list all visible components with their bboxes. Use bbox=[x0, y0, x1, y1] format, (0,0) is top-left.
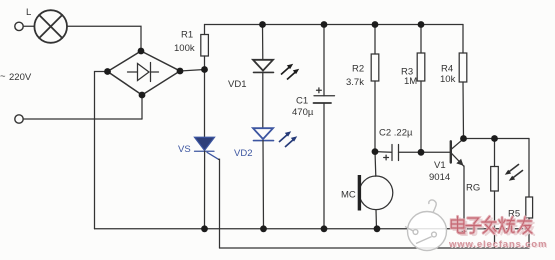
wire VD1 branch top bbox=[262, 25, 264, 60]
terminal T2 (220V neutral) bbox=[15, 115, 23, 123]
svg-text:R4: R4 bbox=[441, 64, 453, 75]
transistor V1 bbox=[450, 141, 452, 162]
svg-text:3.7k: 3.7k bbox=[346, 77, 364, 88]
svg-text:220V: 220V bbox=[9, 72, 32, 83]
svg-text:9014: 9014 bbox=[429, 172, 450, 183]
wire R4 top from rail corner bbox=[462, 25, 464, 54]
svg-text:R2: R2 bbox=[352, 64, 364, 75]
wire R5 bottom bbox=[528, 218, 530, 248]
wire VS cathode to rail bbox=[204, 151, 206, 229]
wire R1 top from rail bbox=[204, 25, 206, 35]
node rail R2 bbox=[372, 21, 379, 28]
wire R2 junction to C2 bbox=[375, 151, 392, 154]
node R1/VS bbox=[201, 66, 208, 73]
bottom rail 2 bbox=[220, 247, 530, 249]
svg-text:~: ~ bbox=[0, 71, 6, 82]
svg-text:1M: 1M bbox=[404, 76, 417, 87]
wire MC bottom bbox=[375, 210, 378, 229]
wire R3 bottom bbox=[420, 81, 422, 152]
light arrows into RG bbox=[508, 165, 519, 173]
top rail bbox=[205, 24, 464, 26]
bridge internal diode bbox=[128, 71, 138, 73]
svg-text:10k: 10k bbox=[440, 74, 456, 85]
svg-text:V1: V1 bbox=[434, 160, 446, 171]
wire R4 bottom bbox=[462, 82, 465, 139]
node RG top bbox=[491, 135, 498, 142]
wire to R5 bbox=[528, 139, 530, 198]
node bridge bottom bbox=[139, 92, 146, 99]
wire VS gate down bbox=[219, 159, 220, 248]
wire R3 top bbox=[420, 25, 422, 54]
capacitor C2 bbox=[391, 145, 393, 161]
microphone MC bbox=[359, 176, 393, 210]
wire RG top bbox=[494, 139, 496, 167]
thyristor VS bbox=[195, 137, 219, 159]
svg-text:www.elecfans.com: www.elecfans.com bbox=[448, 239, 547, 250]
node bridge right bbox=[177, 68, 184, 75]
LED VD1 light arrows bbox=[281, 64, 299, 80]
node R3/base bbox=[418, 149, 425, 156]
terminal T1 (220V live) bbox=[15, 22, 23, 30]
node rail C1 bbox=[321, 21, 328, 28]
svg-text:100k: 100k bbox=[174, 43, 195, 54]
svg-text:VS: VS bbox=[178, 144, 191, 155]
photoresistor RG bbox=[491, 167, 499, 192]
wire VD2 to rail bbox=[262, 141, 265, 229]
node rail emitter bbox=[461, 225, 468, 232]
wire bridge left node to bottom rail bbox=[95, 72, 108, 229]
svg-text:L: L bbox=[26, 7, 31, 18]
wire VD1 to VD2 bbox=[262, 72, 264, 128]
node rail VD2 bbox=[260, 225, 267, 232]
wire R2 top bbox=[374, 25, 376, 55]
wire C1 bottom bbox=[323, 103, 325, 229]
svg-text:VD2: VD2 bbox=[234, 148, 252, 159]
svg-text:R1: R1 bbox=[181, 30, 193, 41]
LED VD1 bbox=[253, 60, 273, 71]
wire T2 to bridge bbox=[23, 118, 142, 120]
node rail VS bbox=[201, 225, 208, 232]
watermark logo circle bbox=[405, 200, 447, 251]
wire V1 emitter down bbox=[463, 166, 465, 229]
node collector bbox=[460, 135, 467, 142]
resistor R3 bbox=[417, 53, 425, 81]
wire C1 top bbox=[323, 25, 325, 96]
wire VS anode bbox=[204, 70, 206, 138]
svg-text:R5: R5 bbox=[508, 209, 520, 220]
svg-text:RG: RG bbox=[466, 183, 480, 194]
lamp L bbox=[34, 10, 67, 43]
wire C2 to base bbox=[399, 151, 451, 153]
resistor R5 bbox=[526, 197, 533, 218]
svg-text:MC: MC bbox=[341, 190, 356, 201]
node rail R3 bbox=[418, 21, 425, 28]
LED VD2 bbox=[253, 128, 274, 140]
wire RG bottom bbox=[494, 191, 496, 248]
wire MC top bbox=[374, 152, 377, 177]
wire T1 to lamp bbox=[23, 25, 34, 27]
capacitor C1 bbox=[314, 95, 335, 97]
collector net wire bbox=[464, 138, 530, 140]
node R2/C2/MC bbox=[372, 148, 379, 155]
LED VD2 light arrows bbox=[279, 131, 297, 147]
node bridge left bbox=[104, 68, 111, 75]
node rail MC bbox=[374, 225, 381, 232]
svg-text:VD1: VD1 bbox=[228, 79, 246, 90]
node bridge top bbox=[138, 48, 145, 55]
resistor R4 bbox=[459, 53, 467, 82]
node rail VD1 bbox=[259, 21, 266, 28]
bottom rail 1 bbox=[95, 228, 530, 230]
wire bridge right node to R1/VS junction bbox=[180, 70, 205, 72]
wire R2 bottom bbox=[374, 81, 376, 152]
svg-text:470µ: 470µ bbox=[292, 107, 314, 118]
svg-text:C1: C1 bbox=[296, 96, 308, 107]
svg-text:C2 .22µ: C2 .22µ bbox=[379, 128, 413, 139]
wire R1 bottom bbox=[204, 56, 206, 70]
bridge rectifier diamond bbox=[108, 51, 181, 95]
wire bridge bottom node down bbox=[141, 95, 143, 119]
node rail C1 bottom bbox=[321, 225, 328, 232]
resistor R1 bbox=[201, 35, 209, 57]
wire lamp to bridge top bbox=[67, 26, 141, 51]
resistor R2 bbox=[371, 54, 379, 81]
